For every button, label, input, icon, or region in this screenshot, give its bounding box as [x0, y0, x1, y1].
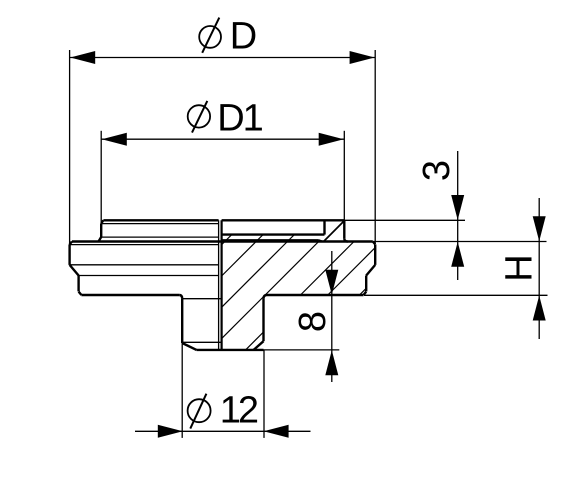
- flange 45deg chamfer right: [366, 265, 375, 276]
- 12 extension line left: [181, 343, 183, 438]
- diameter symbol of D: [199, 18, 221, 53]
- 12 arrow left: [158, 425, 183, 438]
- 3 arrow up: [451, 242, 464, 267]
- 3/H extension line at flange top: [373, 241, 547, 243]
- dimension H: [364, 198, 548, 339]
- hatch tick strip c497: [256, 235, 263, 242]
- svg-text:D: D: [230, 16, 257, 58]
- plate bottom: [222, 233, 325, 235]
- section edge thick vertical: [221, 220, 223, 350]
- lower tier bottom-right chamfer: [364, 292, 367, 295]
- hatch line c591 stem: [246, 332, 264, 350]
- flange left side: [68, 244, 70, 265]
- flange top surface: [72, 240, 373, 242]
- thin silhouette ring lines on exterior half: [70, 224, 222, 343]
- D1 arrow left: [102, 133, 127, 146]
- boss base flare ring line: [100, 236, 219, 238]
- 12 dimension line: [135, 430, 311, 432]
- sectioned top plate (right half): [222, 220, 348, 241]
- flange top-left chamfer: [70, 242, 72, 245]
- stem bottom chamfer ring line: [182, 341, 222, 343]
- svg-text:3: 3: [416, 160, 458, 181]
- hatching 45deg (section): [222, 235, 376, 350]
- boss top chamfer ring line: [101, 223, 218, 225]
- stem bottom-left chamfer: [182, 343, 196, 350]
- svg-text:8: 8: [292, 311, 334, 332]
- H arrow up: [533, 296, 546, 321]
- svg-text:12: 12: [220, 389, 258, 431]
- boss base flare left: [99, 237, 102, 242]
- inner thin chamfer: [319, 240, 324, 242]
- 12 arrow right: [264, 425, 289, 438]
- 8 arrow down: [325, 270, 338, 295]
- dimension 12: [135, 343, 311, 438]
- section boundary pair at center: [219, 220, 222, 350]
- boss base corner arc right: [344, 239, 347, 242]
- dimension 8: [264, 251, 340, 382]
- hatch line c497: [222, 242, 257, 277]
- flange right side: [374, 244, 376, 265]
- svg-text:D1: D1: [217, 98, 262, 140]
- D dimension line: [70, 57, 376, 59]
- stem root fillet ring line: [182, 298, 221, 300]
- hatch tick c654: [360, 288, 367, 295]
- hatch corner tick c466: [222, 242, 225, 245]
- long hatch diagonal through boss section: [324, 221, 344, 242]
- stem root fillet left: [179, 295, 182, 299]
- hatch tick strip c466: [225, 235, 232, 242]
- boss right side (section): [343, 220, 345, 239]
- D1 extension line left: [100, 131, 102, 222]
- D extension line right: [374, 50, 376, 244]
- D1 arrow right: [319, 133, 344, 146]
- hatch line c622: [328, 248, 375, 295]
- 3 dimension line: [457, 151, 459, 280]
- boss left side: [100, 223, 102, 237]
- part body outline (left exterior half): [70, 220, 376, 350]
- boss top-left chamfer: [101, 220, 103, 223]
- 8 dimension line: [331, 251, 333, 382]
- stem bottom-right chamfer: [254, 341, 264, 350]
- H dimension line: [538, 198, 540, 339]
- stem root fillet right: [264, 295, 268, 299]
- flange chamfer top ring line: [70, 264, 219, 266]
- 8 extension line bottom: [264, 349, 340, 351]
- stem bottom face: [197, 349, 264, 351]
- diameter symbol of 12: [188, 394, 211, 429]
- flange underside right: [267, 294, 364, 296]
- 3 extension line top: [344, 219, 465, 221]
- dimension D: [70, 50, 376, 245]
- 12 extension line right: [263, 350, 265, 438]
- 3 arrow down: [451, 195, 464, 220]
- hatch line c528: [222, 242, 288, 308]
- hatch line c560: [222, 242, 319, 339]
- flange chamfer bottom ring line: [79, 275, 219, 277]
- H arrow down: [533, 216, 546, 241]
- hatch tick strip c528: [287, 235, 294, 242]
- flange top chamfer ring line: [70, 244, 219, 246]
- centerline thin vertical: [218, 220, 220, 350]
- inner thin line under plate: [222, 239, 319, 241]
- 8 arrow up: [325, 350, 338, 375]
- flange 45deg chamfer left: [70, 265, 79, 276]
- diameter symbol of D1: [188, 101, 210, 133]
- lower tier right side: [365, 276, 367, 292]
- H extension line bottom: [364, 294, 548, 296]
- svg-text:H: H: [498, 254, 540, 281]
- D extension line left: [69, 50, 71, 245]
- hatch line c591 flange: [301, 242, 355, 296]
- plate top surface: [222, 219, 345, 221]
- D arrow left: [70, 51, 95, 64]
- lower tier left side: [77, 276, 79, 292]
- D1 dimension line: [101, 138, 344, 140]
- lower tier bottom-left chamfer: [79, 292, 82, 295]
- dimension 3: [344, 151, 546, 280]
- boss top surface left half: [103, 219, 218, 221]
- plate right side: [323, 220, 325, 234]
- D1 extension line right: [343, 131, 345, 221]
- stem right side (section): [262, 299, 264, 342]
- dimension D1: [101, 131, 344, 222]
- stem left side: [181, 299, 183, 343]
- flange underside left: [81, 294, 179, 296]
- flange top-right chamfer: [373, 242, 375, 245]
- D arrow right: [350, 51, 375, 64]
